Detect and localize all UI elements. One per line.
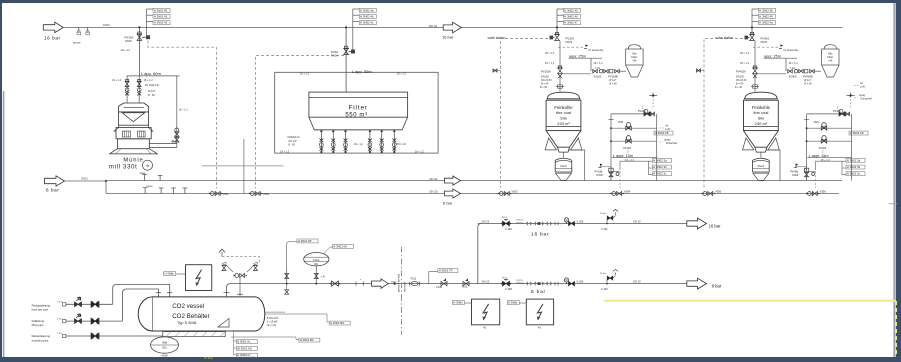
svg-text:1 3/4": 1 3/4": [57, 333, 62, 335]
wire: lattice top bar (silo2): [807, 113, 849, 115]
right shadow line: [893, 3, 895, 357]
svg-text:H 3N90 A7: H 3N90 A7: [237, 353, 251, 357]
node: top 16 bar supply arrow: [43, 22, 63, 32]
weigh scale instrument: [151, 337, 179, 353]
svg-text:V305: V305: [715, 190, 722, 194]
wire: drop to PV102A: [559, 41, 561, 68]
svg-text:H 3N02 43: H 3N02 43: [154, 21, 168, 25]
wire: drop to PV402A: [754, 41, 756, 68]
inline valve on 6bar line: [332, 281, 339, 286]
svg-text:Silo: Silo: [758, 116, 765, 121]
svg-text:DN08: DN08: [792, 174, 799, 177]
svg-text:H 3N8x: H 3N8x: [453, 301, 463, 305]
wire: row1 riser and bus to vessel: [113, 285, 170, 305]
svg-text:H 3N02 4b: H 3N02 4b: [360, 15, 374, 19]
svg-text:H 3N02 4a: H 3N02 4a: [759, 21, 773, 25]
reducer chain (16bar): [527, 222, 532, 226]
relief valve V 102 with vent: [606, 223, 608, 225]
wire: vessel outlet elbow to 6bar line: [227, 284, 691, 297]
buffer bin (silo2): [753, 158, 770, 160]
svg-text:V 105: V 105: [577, 219, 584, 223]
wire: PV102A down to silo top: [559, 75, 561, 92]
svg-text:V002: V002: [263, 192, 270, 196]
svg-text:H 3N02 3c: H 3N02 3c: [847, 172, 861, 176]
pressure reducing valve V 105: [564, 218, 568, 222]
vessel left bottom labels x3: [236, 340, 257, 344]
svg-text:XV02(A-F): XV02(A-F): [287, 135, 299, 139]
svg-text:PICA: PICA: [313, 258, 319, 262]
svg-text:PV40B: PV40B: [790, 171, 798, 174]
svg-text:Schachtel: Schachtel: [666, 141, 678, 145]
svg-text:L app. 60m: L app. 60m: [141, 71, 162, 76]
svg-text:B = 60: B = 60: [610, 82, 618, 85]
svg-text:6 bar: 6 bar: [531, 289, 546, 295]
svg-text:18 + 1,2: 18 + 1,2: [300, 72, 310, 75]
svg-text:H 3N8x: H 3N8x: [165, 272, 175, 276]
svg-text:F100: F100: [436, 286, 442, 289]
junction dot at battery limit: [394, 282, 396, 284]
valve V 109: [503, 221, 510, 226]
svg-text:6 bar: 6 bar: [712, 283, 722, 288]
wire: lattice right vertical (silo2): [851, 114, 853, 181]
svg-text:XV 10(A1-4): XV 10(A1-4): [145, 83, 159, 87]
battery limit chain line: [401, 247, 403, 295]
valve F100: [441, 281, 447, 285]
svg-text:spare: spare: [73, 41, 81, 45]
wire: mill right branch vertical: [176, 76, 178, 148]
control valve row1: [75, 302, 82, 307]
silo filter vessel (silo2): [824, 45, 837, 49]
wire: stray reference line y=166: [202, 165, 283, 167]
svg-text:Mühle: Mühle: [123, 158, 143, 164]
wire: dashed from PV02 to V002: [256, 56, 345, 189]
svg-text:H 3N02 3b: H 3N02 3b: [653, 165, 667, 169]
svg-text:V 108: V 108: [505, 287, 512, 291]
svg-text:Filter: Filter: [631, 55, 637, 59]
svg-text:DN 32: DN 32: [633, 219, 641, 223]
svg-text:Feinkohle: Feinkohle: [554, 105, 573, 110]
svg-text:DN 1/2": DN 1/2": [289, 140, 298, 143]
svg-text:18 + 1,2: 18 + 1,2: [179, 109, 189, 112]
svg-text:LuFt: LuFt: [860, 85, 865, 89]
wire: 16 bar line: [478, 223, 687, 225]
svg-text:WB: WB: [162, 341, 167, 345]
svg-text:18 + 1,2: 18 + 1,2: [354, 143, 364, 146]
svg-text:W 1/2": W 1/2": [148, 89, 156, 93]
junction dot silo2 drop: [751, 26, 753, 28]
label H3N02 1B box (silo1): [654, 131, 673, 135]
valve V003 on lower line (from station): [499, 192, 503, 196]
air branch 1 (silo1): [610, 127, 612, 129]
label H 3N01 0P box: [297, 239, 318, 243]
black valve row3: [91, 333, 99, 339]
svg-text:H 3N02 40: H 3N02 40: [154, 8, 168, 12]
wire: lattice right vertical (silo1): [656, 114, 658, 181]
svg-text:DN 1 1/2: DN 1 1/2: [396, 143, 406, 146]
node: 6 bar outlet arrow: [687, 278, 707, 289]
svg-text:18 + 1,2: 18 + 1,2: [415, 150, 425, 153]
svg-text:Filter: Filter: [827, 55, 833, 59]
svg-text:PV403: PV403: [761, 36, 770, 40]
svg-text:Air: Air: [665, 124, 668, 128]
valve under PICA: [315, 266, 317, 284]
tee on lattice left vertical (silo1): [609, 119, 614, 121]
fitting chain to silo filter (silo2): [788, 70, 793, 73]
svg-text:Rückgasleitung: Rückgasleitung: [32, 303, 51, 307]
svg-text:H 3N02 3c: H 3N02 3c: [653, 172, 667, 176]
label H3N8x near vessel lightning box: [164, 272, 176, 276]
wire: 6 bar line to arrow: [687, 283, 690, 285]
wire: cone to buffer bin (silo2): [760, 152, 762, 158]
svg-text:L appr. 15m: L appr. 15m: [809, 154, 829, 158]
tee on lattice left vertical (silo2): [804, 119, 809, 121]
svg-text:18 + 1,2: 18 + 1,2: [112, 79, 122, 82]
svg-text:Feinkohle: Feinkohle: [752, 105, 771, 110]
svg-text:20 bar: 20 bar: [600, 272, 606, 275]
svg-text:H 3N02 1B: H 3N02 1B: [655, 131, 669, 135]
wire: mill header L app 60m y=75.9: [127, 75, 180, 77]
left shadow line: [3, 91, 5, 357]
valve PV10B (to header): [600, 164, 603, 168]
wire: dashed right to fix point (silo1): [558, 46, 584, 48]
valve PV02: [344, 48, 349, 54]
svg-text:appr. 25m: appr. 25m: [569, 54, 586, 58]
reducer chain (6bar): [527, 282, 532, 286]
valve V 108: [503, 281, 510, 286]
svg-text:fine coal: fine coal: [556, 110, 571, 115]
air branch 2 (silo2): [806, 140, 808, 142]
wire: top main header y=27.4: [63, 26, 842, 28]
lightning box near vessel: [186, 265, 212, 291]
svg-text:H 3N02 47: H 3N02 47: [564, 21, 578, 25]
wire: riser to 16 bar line: [478, 224, 482, 284]
svg-text:18 = 1,2: 18 = 1,2: [740, 62, 750, 65]
filter funnel: [309, 117, 408, 130]
svg-text:H 3N02 4a: H 3N02 4a: [360, 8, 374, 12]
svg-text:16 bar: 16 bar: [709, 223, 721, 228]
svg-text:DN 25: DN 25: [430, 190, 438, 194]
valve V305 on lower line (from station): [703, 192, 707, 196]
svg-text:DN08: DN08: [597, 174, 604, 177]
svg-text:DN 25: DN 25: [482, 279, 490, 283]
svg-text:Füllleitung: Füllleitung: [32, 319, 45, 323]
svg-text:Filter: Filter: [348, 105, 367, 112]
filter outer enclosure box: [275, 72, 438, 153]
buffer bin (silo1): [555, 158, 572, 160]
svg-text:site stutte: site stutte: [404, 281, 407, 292]
silo vessel fine coal (silo1): [547, 92, 579, 99]
valve stack XV10 B: [138, 76, 140, 103]
wire: branch right from PV102A: [562, 73, 591, 75]
wire: dashed right to fix point (silo2): [753, 46, 779, 48]
svg-text:B : 60: B : 60: [148, 93, 155, 97]
svg-text:mill 330t: mill 330t: [109, 165, 138, 171]
svg-text:18 + 1,2: 18 + 1,2: [144, 79, 154, 82]
svg-text:PV402A: PV402A: [736, 69, 746, 73]
svg-text:16 bar: 16 bar: [442, 35, 454, 40]
junction: PI stub on 6bar line: [286, 283, 288, 285]
valve pair on right branch 2: [175, 138, 179, 142]
instrument bubble PICA 001: [304, 253, 329, 266]
silo top tee (silo1): [556, 86, 564, 88]
svg-text:H 3N02 3a: H 3N02 3a: [653, 158, 667, 162]
wire: silo discharge elbow (silo1): [569, 150, 585, 181]
lightning box A: [472, 299, 500, 325]
svg-text:V 109: V 109: [505, 227, 512, 231]
valve V004 on lower line: [612, 192, 616, 196]
label H 3N01 BA box: [299, 338, 320, 342]
fitting chain to silo filter (silo1): [593, 70, 598, 73]
svg-text:6 bar: 6 bar: [46, 188, 59, 193]
mill skirt legs: [109, 149, 157, 154]
svg-text:DN 32: DN 32: [430, 177, 438, 181]
svg-text:V 104: V 104: [577, 279, 584, 283]
svg-text:DN 25: DN 25: [502, 277, 507, 279]
silo vessel fine coal (silo2): [745, 92, 777, 99]
svg-text:18 = 1,2: 18 = 1,2: [789, 62, 799, 65]
wire: PV402A down to silo top: [754, 75, 756, 92]
tick fitting on 6bar line: [355, 282, 357, 286]
wire: dashed valve-station to V004: [501, 39, 549, 188]
valve pair on right branch 1: [175, 128, 179, 132]
weighbridge under vessel: [163, 332, 225, 337]
svg-text:V306: V306: [820, 190, 827, 194]
wire: mid lower line y=193.5: [105, 181, 107, 194]
valve V306 on lower line: [808, 192, 812, 196]
svg-text:H 3N01 0P: H 3N01 0P: [298, 239, 312, 243]
silo cone (silo1): [546, 131, 581, 148]
svg-text:28 = 1,2: 28 = 1,2: [545, 52, 555, 55]
silo skirt legs (silo1): [545, 138, 556, 150]
junction dot silo1 drop: [556, 26, 558, 28]
svg-text:18 = 1,2: 18 = 1,2: [594, 62, 604, 65]
valve PV40B (to header): [796, 164, 799, 168]
svg-text:18 + 1,2: 18 + 1,2: [397, 72, 407, 75]
svg-text:V004: V004: [624, 190, 631, 194]
valve V002: [250, 192, 254, 196]
svg-text:W 3N01 AG: W 3N01 AG: [237, 346, 252, 350]
svg-text:back gas pipe: back gas pipe: [32, 308, 49, 312]
wire: dashed valve-station to V306: [704, 39, 743, 188]
svg-text:H 3N8x: H 3N8x: [508, 301, 518, 305]
svg-text:PV102A: PV102A: [541, 69, 551, 73]
discharge funnel on line (silo1): [556, 173, 572, 180]
svg-text:PN 16x: PN 16x: [517, 282, 525, 284]
label H3N8x box B: [507, 301, 519, 305]
svg-text:Pfand: Pfand: [560, 165, 567, 168]
big flow arrow on 6bar line: [372, 279, 389, 289]
air branch 1 (silo2): [806, 127, 808, 129]
valve PV10A: [137, 34, 142, 40]
svg-text:28 = 1,2: 28 = 1,2: [740, 52, 750, 55]
wire: filter drop vertical: [345, 27, 347, 92]
svg-text:Silo: Silo: [632, 52, 637, 56]
svg-text:20 bar: 20 bar: [600, 212, 606, 215]
valve PV402A: [753, 68, 758, 74]
svg-text:V001: V001: [223, 192, 230, 196]
svg-text:valve station: valve station: [716, 36, 734, 40]
svg-text:PV103B: PV103B: [608, 74, 618, 78]
vessel support wedge: [218, 319, 229, 328]
svg-text:B + 60: B + 60: [540, 86, 548, 89]
svg-text:H 3N02 45: H 3N02 45: [564, 8, 578, 12]
svg-text:240 m³: 240 m³: [557, 121, 570, 126]
vent tee above PV406: [850, 96, 852, 109]
svg-text:DN8: DN8: [814, 121, 820, 124]
right frame inner: [896, 0, 901, 362]
svg-text:B + 60: B + 60: [735, 86, 743, 89]
spare tees lower mid line: [144, 188, 146, 194]
wire: lattice left vertical (silo2): [806, 114, 808, 181]
svg-text:6 bar: 6 bar: [443, 201, 453, 206]
svg-text:L appr. 15m: L appr. 15m: [613, 154, 633, 158]
wire: filter drain vertical: [243, 139, 245, 193]
junction dot filter drop: [345, 26, 347, 28]
svg-text:Air: Air: [860, 81, 863, 85]
svg-text:DN25: DN25: [81, 177, 88, 181]
svg-text:H 3N02 46: H 3N02 46: [564, 15, 578, 19]
svg-text:18 = 1,2: 18 = 1,2: [545, 62, 555, 65]
silo top tee (silo2): [751, 86, 759, 88]
svg-text:V 102: V 102: [601, 228, 608, 231]
svg-text:CO2 vessel: CO2 vessel: [172, 303, 204, 310]
svg-text:spare: spare: [140, 172, 147, 175]
svg-text:appr. 25m: appr. 25m: [764, 54, 781, 58]
silo cone (silo2): [744, 131, 779, 148]
lightning box B: [526, 299, 553, 325]
svg-text:H 3N02 3b: H 3N02 3b: [847, 165, 861, 169]
svg-text:16 bar: 16 bar: [44, 36, 61, 41]
N2 stub labels (silo2): [751, 9, 753, 27]
CO2 vessel body: [138, 297, 265, 331]
wire: mid upper line y=180.6: [65, 180, 107, 182]
svg-text:550 m³: 550 m³: [345, 113, 367, 119]
black valve row2: [91, 318, 99, 324]
svg-text:18 + 1,2: 18 + 1,2: [121, 48, 131, 52]
relief valve right: [254, 266, 258, 271]
svg-text:V003: V003: [512, 190, 519, 194]
fitting stub on dashed line (silo2): [696, 70, 704, 72]
svg-text:B 3N01 AL: B 3N01 AL: [237, 340, 251, 344]
svg-text:valve station: valve station: [488, 36, 506, 40]
wire: riser to N2 stubs (mill): [146, 27, 148, 35]
svg-text:XV104: XV104: [623, 146, 631, 150]
svg-text:Silo: Silo: [828, 52, 833, 56]
svg-text:fix assembly: fix assembly: [784, 48, 799, 52]
svg-text:H 3N02 4c: H 3N02 4c: [360, 21, 374, 25]
svg-text:PV400B: PV400B: [803, 74, 813, 78]
spare tees upper mid line: [144, 175, 146, 181]
svg-text:V101: V101: [462, 286, 468, 289]
svg-text:fix assembly: fix assembly: [589, 48, 604, 52]
label H3N8x box A: [453, 301, 465, 305]
svg-text:H 3N02 48: H 3N02 48: [759, 8, 773, 12]
svg-text:H 3N02 49: H 3N02 49: [759, 15, 773, 19]
svg-text:v46: v46: [632, 60, 637, 63]
svg-text:16 bar: 16 bar: [531, 232, 549, 238]
svg-text:DN 32: DN 32: [429, 24, 437, 28]
svg-text:H 3N02 1B: H 3N02 1B: [850, 131, 864, 135]
wire: cone to buffer bin (silo1): [563, 152, 565, 158]
junction dot mill drop: [138, 26, 140, 28]
node: 6 bar supply arrow (left): [45, 176, 65, 186]
svg-text:PV10A: PV10A: [125, 35, 134, 39]
svg-text:DN25: DN25: [761, 40, 768, 44]
label spray/Schachtel (silo2): [854, 97, 858, 99]
svg-text:Typ S 8/48: Typ S 8/48: [177, 320, 197, 325]
svg-text:DN25: DN25: [566, 40, 573, 44]
valve PV102A: [558, 68, 563, 74]
spare tee 1 on header: [78, 27, 80, 31]
node: 16 bar outlet arrow: [687, 218, 707, 229]
wire: branch right from PV402A: [757, 73, 786, 75]
valve stack XV10 A: [126, 76, 128, 103]
wire: dashed to V004 lower: [619, 172, 621, 189]
svg-text:spray: spray: [664, 138, 671, 142]
wire: dashed vent to atmosphere arrow: [222, 257, 259, 263]
svg-text:pressure tan wall: pressure tan wall: [398, 273, 401, 292]
label Air/Luft (silo1): [659, 127, 664, 129]
wire: dashed from PV10A to V001: [148, 41, 217, 189]
label H 3N02 TP box: [429, 271, 438, 283]
valve PV103: [556, 27, 558, 34]
svg-text:+ 8t: + 8t: [321, 275, 325, 278]
valve PV403: [751, 27, 753, 34]
filter discharge valve columns: [320, 130, 322, 132]
svg-text:DN 25: DN 25: [502, 217, 507, 219]
air branch 2 (silo1): [610, 140, 612, 142]
wire: row2 riser to vessel: [123, 289, 159, 321]
vessel relief station with vent arrow: [239, 278, 241, 297]
yellow markup line: [604, 300, 896, 302]
svg-text:H 3N02 TP: H 3N02 TP: [439, 269, 453, 273]
svg-text:DN 32: DN 32: [633, 279, 641, 283]
svg-text:emptying pipe: emptying pipe: [32, 338, 49, 342]
svg-text:XV103: XV103: [594, 74, 602, 78]
svg-text:1 3/4": 1 3/4": [57, 318, 62, 320]
svg-text:H 3N02 42: H 3N02 42: [154, 15, 168, 19]
vent tee above PV106: [652, 96, 654, 109]
svg-text:PV10B: PV10B: [595, 171, 603, 174]
svg-text:DN25: DN25: [125, 39, 132, 43]
svg-text:XV404: XV404: [819, 146, 827, 150]
N2 stub labels (silo1): [556, 9, 558, 27]
label H 3N01 BG box: [265, 311, 285, 313]
svg-text:spare: spare: [147, 185, 154, 188]
N2 stub labels (mill): [146, 9, 148, 27]
label spray/Schachtel (silo1): [659, 141, 663, 143]
svg-text:B = 60: B = 60: [805, 82, 813, 85]
svg-text:fine coal: fine coal: [753, 110, 768, 115]
svg-text:L app. 55m: L app. 55m: [352, 69, 373, 74]
svg-text:DN25: DN25: [103, 23, 110, 27]
wire: dashed to V306 lower: [815, 172, 817, 189]
svg-text:240 m³: 240 m³: [755, 121, 768, 126]
relief valve left: [222, 266, 226, 271]
svg-text:v46: v46: [828, 60, 833, 63]
svg-text:PV103: PV103: [566, 36, 575, 40]
label H3N02 1B box (silo2): [849, 131, 868, 135]
svg-text:filling pipe: filling pipe: [32, 323, 44, 327]
N2 return labels x3 (silo2): [816, 161, 846, 170]
silo filter vessel (silo1): [628, 45, 641, 49]
svg-text:PN 16x: PN 16x: [517, 222, 525, 224]
svg-text:V 103: V 103: [601, 288, 608, 291]
svg-text:Schachtel: Schachtel: [861, 97, 873, 101]
wire: silo discharge elbow (silo2): [766, 150, 780, 181]
label H 3N01 0H box: [324, 247, 333, 253]
pressure reducing valve V 104: [564, 278, 568, 282]
